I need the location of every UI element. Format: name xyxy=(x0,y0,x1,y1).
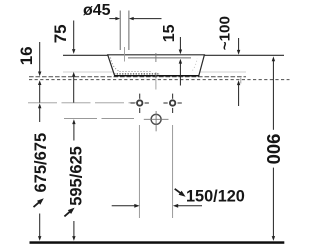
node console plate dashed top xyxy=(29,76,246,78)
dim 675/675 up arrowhead under extension line xyxy=(38,103,41,108)
dim 150/120 right leader with left arrowhead xyxy=(173,204,178,208)
node console-top-faint-line xyxy=(63,71,246,73)
svg-text:675/675: 675/675 xyxy=(32,133,50,193)
node drain hole xyxy=(144,111,169,131)
dim 150/120 left leader with right arrowhead xyxy=(112,205,135,207)
node small hole left centerline vertical xyxy=(138,125,140,218)
dim 595/625 up arrowhead under drain extension line xyxy=(72,119,75,124)
annotation arrow 675 xyxy=(34,202,40,208)
dim ø45 leader right with left arrowhead xyxy=(134,18,162,20)
dim 15 up arrowhead below xyxy=(179,59,182,64)
node small hole right centerline vertical xyxy=(172,125,174,218)
dim ~100 line with down arrowhead xyxy=(238,38,240,50)
svg-text:150/120: 150/120 xyxy=(186,188,245,206)
dim 900 lower segment with down arrowhead at floor xyxy=(272,168,274,237)
node faucet centerline xyxy=(124,47,126,62)
node bowl dotted contour left xyxy=(111,58,120,72)
node tap hole left xyxy=(131,94,149,113)
node basin bottom edge xyxy=(114,75,199,77)
node bowl dotted bottom xyxy=(120,71,152,73)
node console edge tick xyxy=(240,78,242,84)
svg-text:~100: ~100 xyxy=(217,16,234,50)
svg-text:900: 900 xyxy=(263,134,284,165)
dim 900 up arrowhead at rim xyxy=(272,56,275,61)
svg-text:ø45: ø45 xyxy=(83,2,111,19)
node basin body xyxy=(108,55,205,76)
annotation arrow 150/120 xyxy=(175,189,182,194)
node drain centerline upper segments xyxy=(155,53,157,62)
dim 75 up arrowhead below xyxy=(72,72,75,77)
node tap hole right xyxy=(163,94,181,113)
svg-text:75: 75 xyxy=(51,24,70,43)
dim 675/675 lower segment with down arrowhead at floor xyxy=(39,214,41,237)
svg-text:595/625: 595/625 xyxy=(68,146,86,206)
node drain-hole extension line xyxy=(64,118,134,120)
dim ø45 extension line right xyxy=(128,11,130,51)
dim ø45 extension line left xyxy=(119,11,121,51)
dim ø45 leader left with right arrowhead xyxy=(109,18,115,20)
node rim line xyxy=(63,54,284,56)
node bowl dotted right xyxy=(193,59,198,71)
svg-text:15: 15 xyxy=(161,24,178,42)
node console plate dashed bottom xyxy=(29,79,290,81)
dim 16 up arrowhead below xyxy=(38,80,41,85)
svg-text:16: 16 xyxy=(17,46,36,65)
node bowl dotted texture row xyxy=(114,73,160,75)
dim 75 line with down arrowhead xyxy=(73,21,75,50)
dim 595/625 lower segment with down arrowhead at floor xyxy=(73,221,75,236)
dim 16 line with down arrowhead xyxy=(39,42,41,72)
node inner ledge line xyxy=(128,57,191,59)
dim 15 line with down arrowhead xyxy=(179,37,181,50)
dim ~100 up arrowhead below xyxy=(237,80,240,85)
node tap-hole extension line xyxy=(28,102,136,104)
node floor line xyxy=(30,241,285,244)
annotation arrow 595 xyxy=(64,211,70,217)
